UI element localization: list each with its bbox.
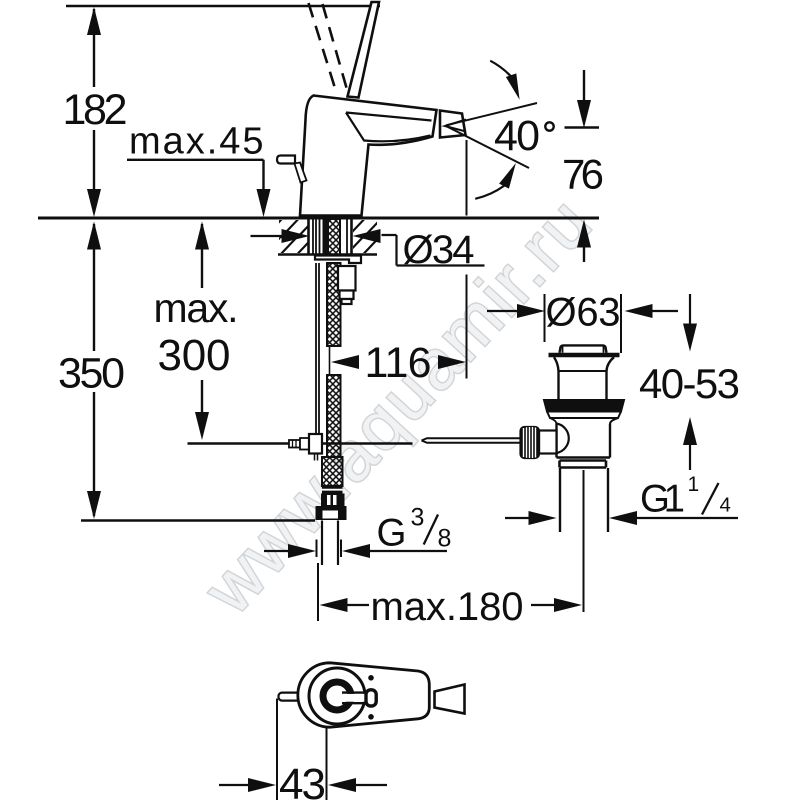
- svg-text:G: G: [377, 512, 407, 555]
- svg-text:40: 40: [494, 112, 540, 160]
- svg-text:116: 116: [365, 339, 432, 387]
- svg-text:1: 1: [688, 473, 700, 496]
- svg-text:max.180: max.180: [371, 585, 524, 629]
- svg-text:max.45: max.45: [129, 121, 264, 163]
- svg-text:76: 76: [562, 151, 604, 198]
- svg-text:40-53: 40-53: [639, 360, 740, 407]
- svg-text:max.: max.: [154, 285, 239, 331]
- svg-text:Ø34: Ø34: [403, 228, 475, 272]
- svg-text:182: 182: [63, 86, 128, 134]
- svg-text:4: 4: [720, 494, 731, 517]
- svg-text:43: 43: [279, 760, 326, 800]
- svg-text:350: 350: [58, 350, 125, 398]
- svg-text:G1: G1: [640, 478, 685, 521]
- svg-text:Ø63: Ø63: [546, 291, 621, 335]
- svg-text:3: 3: [411, 504, 425, 532]
- svg-text:300: 300: [158, 331, 231, 380]
- svg-text:8: 8: [438, 525, 452, 553]
